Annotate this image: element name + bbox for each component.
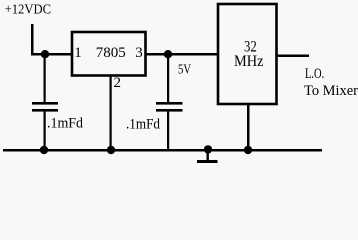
capacitor C1 .1mFd <box>32 102 58 112</box>
svg-text:2: 2 <box>114 75 122 91</box>
ground symbol <box>197 151 218 163</box>
svg-text:7805: 7805 <box>96 45 126 61</box>
junction C1 / ground rail <box>40 146 48 154</box>
wire pin 2 down to ground rail <box>110 76 112 151</box>
wire pin 3 to oscillator <box>146 53 219 56</box>
wire 5V node down to C2 <box>167 54 169 102</box>
svg-text:.1mFd: .1mFd <box>47 116 83 132</box>
junction 5V node <box>164 50 172 58</box>
svg-text:5V: 5V <box>178 62 191 77</box>
ground junction node <box>204 145 212 153</box>
wire C1 down to ground rail <box>44 112 46 151</box>
ground rail wire <box>3 149 322 152</box>
capacitor C2 .1mFd <box>156 102 183 112</box>
wire junction down to C1 <box>44 54 46 102</box>
svg-text:.1mFd: .1mFd <box>126 117 160 133</box>
wire C2 down to ground rail <box>167 112 169 151</box>
svg-text:+12VDC: +12VDC <box>5 3 52 18</box>
wire input horizontal to pin 1 <box>31 53 72 56</box>
regulator U1 7805 <box>72 32 146 76</box>
svg-text:3: 3 <box>135 45 143 61</box>
junction oscillator pin / ground rail <box>244 146 252 154</box>
svg-text:To Mixer: To Mixer <box>304 83 358 99</box>
wire oscillator output <box>277 55 309 58</box>
svg-text:L.O.: L.O. <box>305 66 324 82</box>
wire oscillator bottom pin down <box>247 104 250 150</box>
junction input node <box>41 50 49 58</box>
oscillator U2 32 MHz <box>218 4 277 104</box>
svg-text:1: 1 <box>74 45 82 61</box>
junction pin 2 / ground rail <box>107 146 115 154</box>
svg-text:MHz: MHz <box>234 53 264 70</box>
wire from +12VDC down <box>31 24 34 55</box>
